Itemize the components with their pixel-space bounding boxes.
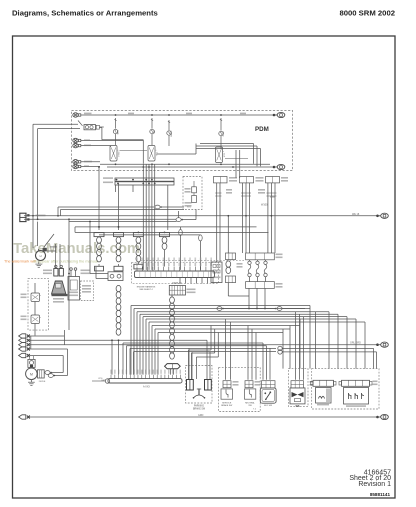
aux dashed module [183, 177, 202, 210]
wire left main vert [68, 270, 70, 330]
svg-text:SERVICE: SERVICE [222, 402, 232, 404]
left flag connector 1 [19, 334, 30, 338]
relay CR1 [21, 293, 42, 302]
svg-text:GRD: GRD [101, 380, 106, 382]
dashed link wire [140, 259, 246, 261]
wire left 336 [29, 335, 64, 337]
harness bundle right drops [283, 306, 365, 369]
wire battery plus [24, 213, 380, 217]
PDM out connector E [266, 177, 289, 183]
harness bundle wires [131, 306, 365, 375]
svg-text:A-XXX: A-XXX [143, 386, 150, 389]
svg-text:Diagrams, Schematics or Arrang: Diagrams, Schematics or Arrangements [12, 9, 158, 18]
svg-text:SW: SW [248, 405, 251, 407]
W100 label [226, 189, 275, 207]
wire jog H5 [134, 352, 277, 380]
connector J1 B+ feed [73, 113, 81, 117]
svg-text:STR: STR [224, 152, 226, 157]
svg-text:The watermark will: The watermark will [4, 259, 36, 263]
fuse F5 JCASE [219, 118, 225, 149]
backup alarm [52, 281, 68, 303]
parking brake plugs [187, 380, 212, 391]
wire horn feeds [33, 216, 57, 251]
harness left connector [89, 221, 123, 281]
left flag connector 4 [19, 347, 30, 351]
wire left 340 [29, 339, 207, 379]
connector J5 right lower [273, 164, 285, 169]
wire mid vert 242 [241, 183, 251, 253]
loom chain C [133, 233, 143, 269]
loom chain D [160, 233, 170, 267]
svg-text:ENGINE HARNESS: ENGINE HARNESS [137, 285, 156, 288]
harness mid drops [226, 312, 316, 380]
motor relay [28, 356, 35, 367]
inline oval F [199, 235, 203, 270]
cps sensor [92, 378, 110, 383]
svg-text:TAIL: TAIL [156, 151, 159, 156]
wire loom bus c [99, 234, 200, 236]
connector J2 pair [73, 138, 81, 148]
motor ground [28, 380, 35, 386]
display label [172, 282, 195, 293]
wire P3 drops [374, 348, 377, 368]
svg-text:8000 SRM 2002: 8000 SRM 2002 [339, 9, 395, 18]
wiper assy motor [290, 388, 305, 408]
wire loom bus b [75, 227, 269, 233]
switch group enclosure [219, 367, 261, 411]
key switch label [264, 405, 272, 407]
footer revision [358, 481, 391, 488]
inline oval E [179, 227, 183, 270]
svg-text:PDM: PDM [255, 126, 269, 133]
PDM out bar stubs [116, 185, 168, 230]
svg-text:85881141: 85881141 [370, 492, 391, 497]
wiper assy plugs [291, 381, 304, 388]
wiper module [68, 277, 80, 301]
splice box W100 [211, 262, 222, 283]
svg-text:Revision 1: Revision 1 [358, 481, 391, 488]
svg-text:GRL GRD: GRL GRD [350, 342, 361, 345]
horn [36, 248, 47, 261]
footer code [370, 492, 391, 497]
motor terminal block [38, 370, 45, 378]
header title left [12, 9, 158, 18]
breaker bottom bar [246, 282, 283, 289]
wire parking feeds [189, 326, 219, 380]
svg-text:GRD: GRD [198, 414, 204, 417]
PDM out bar 2 [103, 182, 174, 186]
header title right [339, 9, 395, 18]
wire feed left vert a [33, 124, 60, 216]
fuse F4 BKUP [167, 120, 173, 146]
circuit breaker CB2 [256, 260, 259, 282]
engine harness enclosure [132, 263, 219, 284]
relay K3 [216, 147, 227, 163]
trans body [344, 388, 369, 407]
wire from J3b [81, 165, 100, 167]
engine harness connector [135, 258, 215, 278]
loom chain A [94, 233, 104, 271]
svg-text:W100: W100 [261, 204, 268, 207]
footer part number [364, 469, 391, 476]
horn ground [35, 262, 42, 268]
wire fuse F1 out [99, 128, 143, 164]
alarm pins [54, 244, 64, 276]
wire motor out2 [48, 374, 55, 378]
wire display drop [171, 295, 173, 297]
wire mid vert group1 [143, 164, 154, 270]
svg-text:TakeManuals.com: TakeManuals.com [13, 241, 140, 257]
PDM out connector D [240, 177, 264, 183]
wire left vert 64 [35, 330, 64, 345]
wire chain drop 118 [118, 183, 120, 230]
display connector [169, 286, 185, 296]
inline connector pair P3 [278, 346, 377, 354]
neutral switch [245, 389, 256, 407]
wiper assy label [310, 381, 314, 386]
connector right W bus [376, 213, 388, 218]
wire left 355 [29, 356, 63, 373]
wire from J3a [81, 161, 100, 163]
bar label [143, 386, 150, 389]
battery connector [20, 213, 30, 221]
svg-text:WS: WS [296, 405, 300, 408]
parking brake label [193, 404, 206, 410]
wire PDM lower bus [100, 163, 275, 168]
wire jog H4 [130, 348, 276, 379]
breaker top bar [246, 253, 283, 260]
svg-text:BKUP: BKUP [171, 130, 173, 136]
wire chain drop 99 [98, 166, 100, 230]
left flag connector 5 [19, 353, 30, 357]
engine harness below pins [180, 278, 213, 284]
svg-text:JCSE: JCSE [223, 131, 225, 137]
watermark notice [4, 259, 98, 263]
wire battery minus [24, 218, 176, 270]
inline connector P1 [217, 307, 276, 311]
engine harness label [137, 285, 156, 291]
wire mid vert 268 [266, 183, 276, 253]
wiper module pins [70, 268, 77, 277]
wire jog H3 [127, 346, 267, 380]
inline connector P2 [275, 307, 310, 311]
wire from J2a [81, 139, 143, 141]
wire PDM route b [196, 146, 257, 166]
left flag connector 2 [19, 338, 30, 342]
svg-text:TAIL: TAIL [153, 129, 156, 134]
loom chain H display [170, 297, 175, 359]
wire stack top [227, 215, 229, 245]
svg-text:SEE SHEET 4: SEE SHEET 4 [139, 289, 153, 291]
main harness connector bar [108, 370, 182, 383]
wire fuse F1 left stubs [60, 124, 80, 128]
wire B+ bus [81, 113, 278, 116]
PDM out bar 1 [103, 177, 174, 181]
key switch plugs [262, 381, 276, 388]
svg-text:BRAKE SW: BRAKE SW [221, 404, 232, 407]
cpm labels [43, 270, 91, 275]
wire jog H2 [123, 343, 263, 380]
motor label [39, 381, 46, 383]
svg-text:WE 18: WE 18 [352, 213, 360, 216]
wire GRL GRD long [29, 342, 378, 345]
inline connector below module [176, 210, 196, 222]
trans plugs [339, 380, 378, 386]
svg-text:H: H [40, 254, 42, 258]
wire aux c [69, 221, 177, 223]
connector right GRD [376, 414, 388, 419]
group label 72 [253, 409, 257, 411]
inline capsule connector [165, 364, 181, 369]
left flag connector 3 [19, 343, 30, 347]
parking brake enclosure [186, 366, 213, 404]
fuse F3 TAIL [150, 118, 156, 145]
svg-text:DRIVE: DRIVE [39, 381, 46, 383]
relay module box [28, 278, 49, 330]
fuse F1 inline [78, 121, 104, 130]
wire loom bus a [75, 226, 257, 228]
svg-text:M: M [30, 373, 33, 377]
PDM enclosure [72, 111, 293, 171]
wire breaker drops [249, 288, 265, 308]
drive motor [26, 368, 38, 380]
strng switch box [81, 281, 94, 301]
circuit breaker CB3 [264, 260, 267, 282]
wire motor out [44, 371, 53, 375]
wiper assy enclosure [288, 369, 308, 407]
relay K2 [148, 146, 159, 162]
right group enclosure [312, 369, 379, 409]
loom chain B [114, 233, 124, 271]
circuit breaker CB1 [248, 260, 251, 282]
PDM label [255, 126, 269, 133]
svg-text:NEUTRAL: NEUTRAL [245, 401, 256, 404]
wire motor loop b [54, 372, 64, 374]
wire K3 drop a [236, 150, 240, 178]
wire flag joiner [30, 336, 32, 349]
wire PDM route a [200, 144, 254, 164]
wire aux pair b [61, 210, 185, 216]
PDM out connector C [214, 177, 238, 183]
connector right GRL [376, 342, 388, 347]
wire aux pair a [58, 207, 154, 216]
footer sheet [349, 475, 391, 482]
flasher plugs [311, 380, 337, 386]
svg-text:KEY SW: KEY SW [264, 405, 272, 407]
svg-text:PARKING: PARKING [194, 404, 204, 407]
relay CR2 [21, 315, 42, 324]
fuse F2 BRAKE [113, 118, 119, 145]
svg-text:DISPLAY: DISPLAY [172, 282, 182, 285]
wire feed left vert b [38, 129, 60, 220]
neutral plugs [245, 381, 261, 388]
inline fuse stack [226, 245, 250, 296]
wire capsule drop [171, 368, 174, 374]
service brake plugs [223, 381, 239, 388]
key switch body [260, 388, 276, 403]
watermark TakeManuals.com [13, 241, 140, 257]
svg-text:HRN: HRN [119, 151, 121, 156]
service brake switch [221, 389, 233, 407]
loom chain G lower [116, 285, 121, 374]
connector J4 right top [273, 112, 285, 117]
wire PDM route left [120, 144, 249, 159]
wire relay stubs [34, 283, 36, 330]
bar GRD stub [101, 380, 106, 382]
svg-text:BRAKE SW: BRAKE SW [193, 407, 206, 410]
connector J3 pair [73, 160, 81, 169]
left flag connector GRD [19, 415, 30, 419]
inline connector aux [155, 205, 184, 209]
wire PDM route c [196, 149, 261, 167]
wire left 349 [29, 349, 68, 376]
wire mid vert 216 [215, 183, 221, 262]
flasher body [316, 388, 332, 406]
parking brake switch [193, 389, 206, 399]
relay K1 [110, 146, 121, 162]
wire bottom GRD [29, 414, 378, 417]
wire from J2b [81, 145, 111, 148]
svg-text:BRK: BRK [118, 129, 120, 134]
